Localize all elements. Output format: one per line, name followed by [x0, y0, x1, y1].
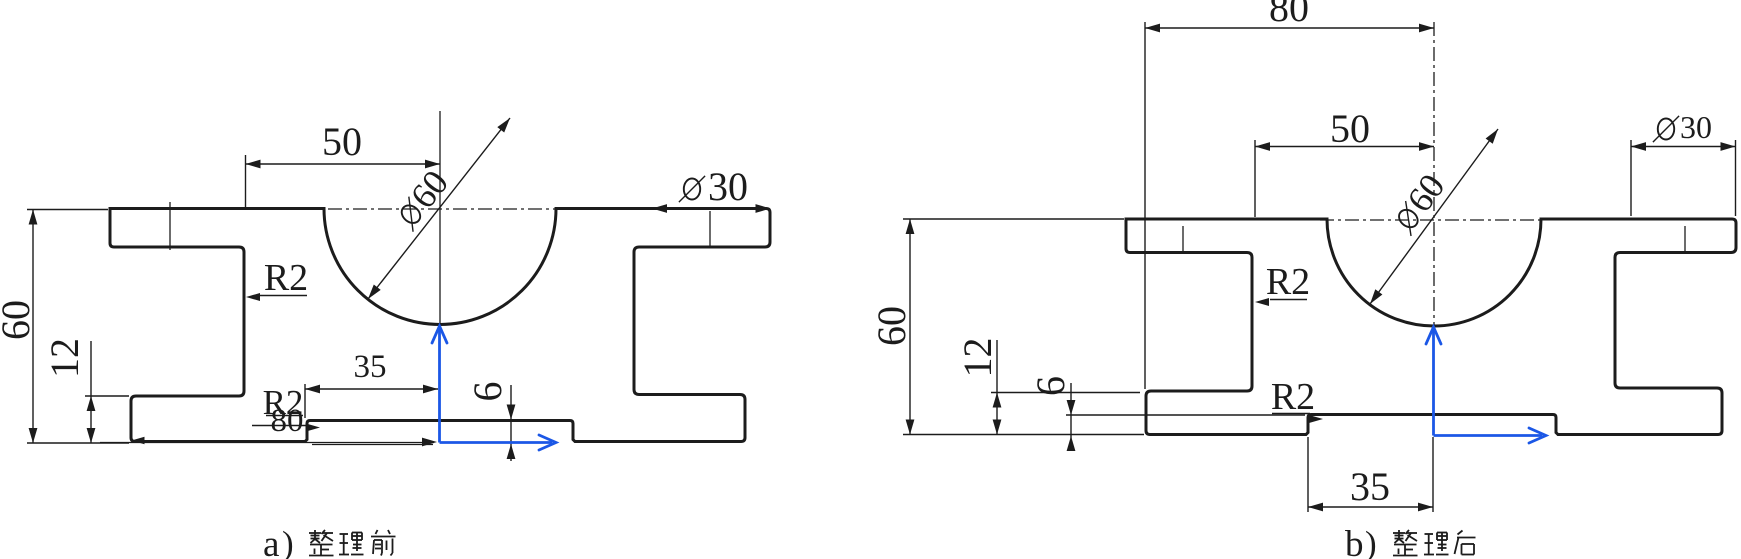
- vertical centerline a: [439, 111, 441, 325]
- svg-text:35: 35: [354, 349, 387, 385]
- dim 12 a: [85, 395, 129, 397]
- blue axes a: [438, 328, 441, 443]
- dim phi60 leader b: [1370, 129, 1498, 304]
- svg-text:R2: R2: [1266, 261, 1310, 303]
- svg-text:50: 50: [322, 119, 362, 164]
- dim 80 line overlapping bottom edge a: [100, 442, 434, 444]
- svg-text:b: b: [1345, 524, 1364, 559]
- dim 60 a: [27, 209, 108, 211]
- svg-text:80: 80: [1269, 0, 1309, 30]
- svg-text:): ): [1365, 524, 1377, 559]
- svg-text:80: 80: [271, 403, 304, 439]
- dim 6 b: [1066, 414, 1305, 416]
- horizontal dashdot centerline a: [328, 208, 558, 210]
- svg-text:6: 6: [1028, 376, 1073, 396]
- dim 35 b: [1307, 437, 1309, 512]
- dim 50 a: [245, 155, 247, 207]
- flange tick left a: [169, 202, 171, 250]
- flange tick left b: [1182, 226, 1184, 251]
- svg-text:): ): [282, 524, 294, 559]
- flange tick right a: [709, 211, 711, 247]
- dim 35 a: [304, 384, 306, 418]
- svg-text:30: 30: [1680, 109, 1712, 145]
- dim 6 a: [510, 385, 512, 461]
- label phi30 a: [684, 179, 700, 200]
- caption a chinese: [309, 532, 321, 534]
- part outline a: [110, 209, 770, 442]
- dim 12 b: [991, 392, 1140, 394]
- svg-text:60: 60: [0, 300, 38, 340]
- svg-text:R2: R2: [1271, 376, 1315, 418]
- part outline b: [1126, 219, 1736, 435]
- label phi60 a: [387, 163, 456, 236]
- label phi60 b: [1384, 167, 1453, 240]
- svg-text:a: a: [263, 524, 279, 559]
- blue axes b: [1432, 330, 1435, 436]
- svg-text:60: 60: [869, 306, 914, 346]
- dim 60 b: [903, 218, 1124, 220]
- dim 50 b: [1254, 140, 1256, 217]
- svg-text:12: 12: [42, 338, 87, 378]
- svg-text:35: 35: [1350, 464, 1390, 509]
- caption b chinese: [1393, 532, 1405, 534]
- vertical dashdot centerline b: [1433, 22, 1435, 330]
- dim phi60 leader a: [368, 118, 510, 299]
- svg-text:R2: R2: [264, 257, 308, 299]
- svg-text:30: 30: [708, 164, 748, 209]
- svg-text:6: 6: [465, 382, 510, 402]
- dim phi30 b: [1630, 140, 1632, 216]
- svg-text:12: 12: [955, 338, 1000, 378]
- dim 80 b: [1144, 22, 1146, 389]
- label phi30 b: [1658, 119, 1674, 140]
- flange tick right b: [1684, 226, 1686, 254]
- svg-text:50: 50: [1330, 106, 1370, 151]
- horizontal dashdot centerline b: [1320, 219, 1544, 221]
- dim phi30 a: [652, 204, 667, 213]
